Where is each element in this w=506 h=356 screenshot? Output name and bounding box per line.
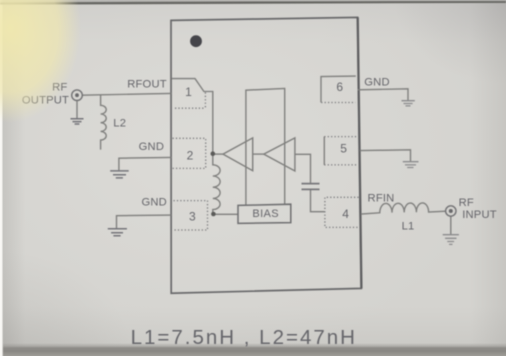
svg-text:INPUT: INPUT	[462, 209, 497, 221]
svg-text:6: 6	[336, 80, 343, 94]
svg-text:4: 4	[342, 207, 349, 221]
svg-text:5: 5	[340, 142, 347, 156]
svg-text:L1=7.5nH , L2=47nH: L1=7.5nH , L2=47nH	[131, 326, 357, 349]
svg-text:RFIN: RFIN	[368, 192, 395, 204]
svg-text:RF: RF	[459, 197, 474, 209]
svg-text:L1: L1	[402, 221, 415, 233]
svg-text:GND: GND	[364, 76, 389, 88]
svg-text:3: 3	[189, 209, 196, 223]
svg-text:BIAS: BIAS	[252, 208, 279, 220]
